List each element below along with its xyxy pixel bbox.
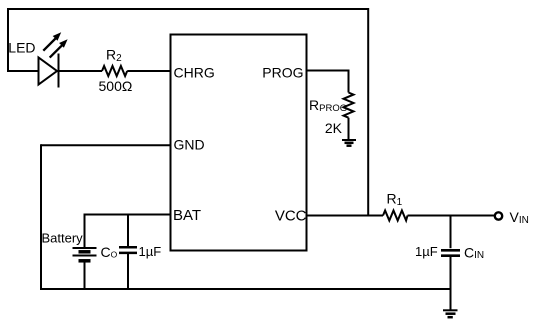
terminal VIN circle (495, 212, 502, 219)
wire LED anode (7, 70, 38, 72)
battery B1 plates (73, 248, 97, 261)
svg-text:CIN: CIN (464, 245, 484, 261)
wire left GND vertical down (40, 144, 42, 289)
wire capacitor Co bottom stem (127, 254, 129, 290)
wire RPROG top stem (348, 70, 350, 93)
wire VCC pin to R1 (306, 215, 383, 217)
svg-text:VCC: VCC (275, 207, 307, 224)
resistor R2 zigzag (102, 66, 127, 76)
LED cathode bar (58, 54, 60, 88)
svg-text:1µF: 1µF (415, 244, 438, 259)
wire bottom rail (40, 288, 451, 290)
svg-text:PROG: PROG (262, 65, 303, 81)
svg-text:1µF: 1µF (139, 244, 162, 259)
wire RPROG bottom stem (348, 118, 350, 140)
wire right vertical from top rail to VCC node (367, 8, 369, 216)
wire CIN top stem (450, 216, 452, 249)
wire top rail (7, 8, 369, 10)
ground for RPROG (342, 140, 356, 146)
capacitor Co plates (119, 247, 137, 253)
LED light arrow 2 (50, 39, 68, 57)
resistor R1 zigzag (383, 211, 408, 221)
resistor RPROG zigzag (344, 93, 354, 118)
wire GND pin to left (41, 144, 170, 146)
wire CIN bottom stem to ground (450, 257, 452, 310)
svg-text:Battery: Battery (42, 231, 84, 246)
wire battery top stem (84, 214, 86, 248)
svg-text:CHRG: CHRG (174, 65, 215, 81)
wire R2 to CHRG pin (127, 70, 170, 72)
wire battery bottom stem (84, 262, 86, 290)
svg-text:GND: GND (174, 137, 205, 153)
capacitor CIN plates (441, 250, 460, 255)
svg-text:BAT: BAT (173, 207, 201, 224)
svg-text:LED: LED (8, 40, 35, 56)
svg-text:RPROG: RPROG (309, 97, 347, 114)
ground for CIN (443, 310, 458, 317)
IC U1 charger box (171, 35, 307, 251)
svg-text:R2: R2 (106, 47, 122, 64)
wire capacitor Co top stem (127, 214, 129, 247)
svg-text:R1: R1 (387, 191, 403, 208)
wire PROG pin to RPROG (307, 70, 349, 72)
svg-text:2K: 2K (325, 120, 343, 136)
wire left vertical from top rail to LED (7, 8, 9, 71)
wire R1 to VIN terminal (408, 215, 495, 217)
wire LED cathode to R2 (59, 70, 103, 72)
wire BAT pin to battery (85, 214, 171, 216)
svg-text:VIN: VIN (510, 209, 529, 226)
svg-text:500Ω: 500Ω (99, 78, 133, 94)
LED D1 diode triangle (39, 58, 58, 85)
svg-text:CO: CO (101, 244, 118, 260)
LED light arrow 1 (43, 32, 61, 50)
